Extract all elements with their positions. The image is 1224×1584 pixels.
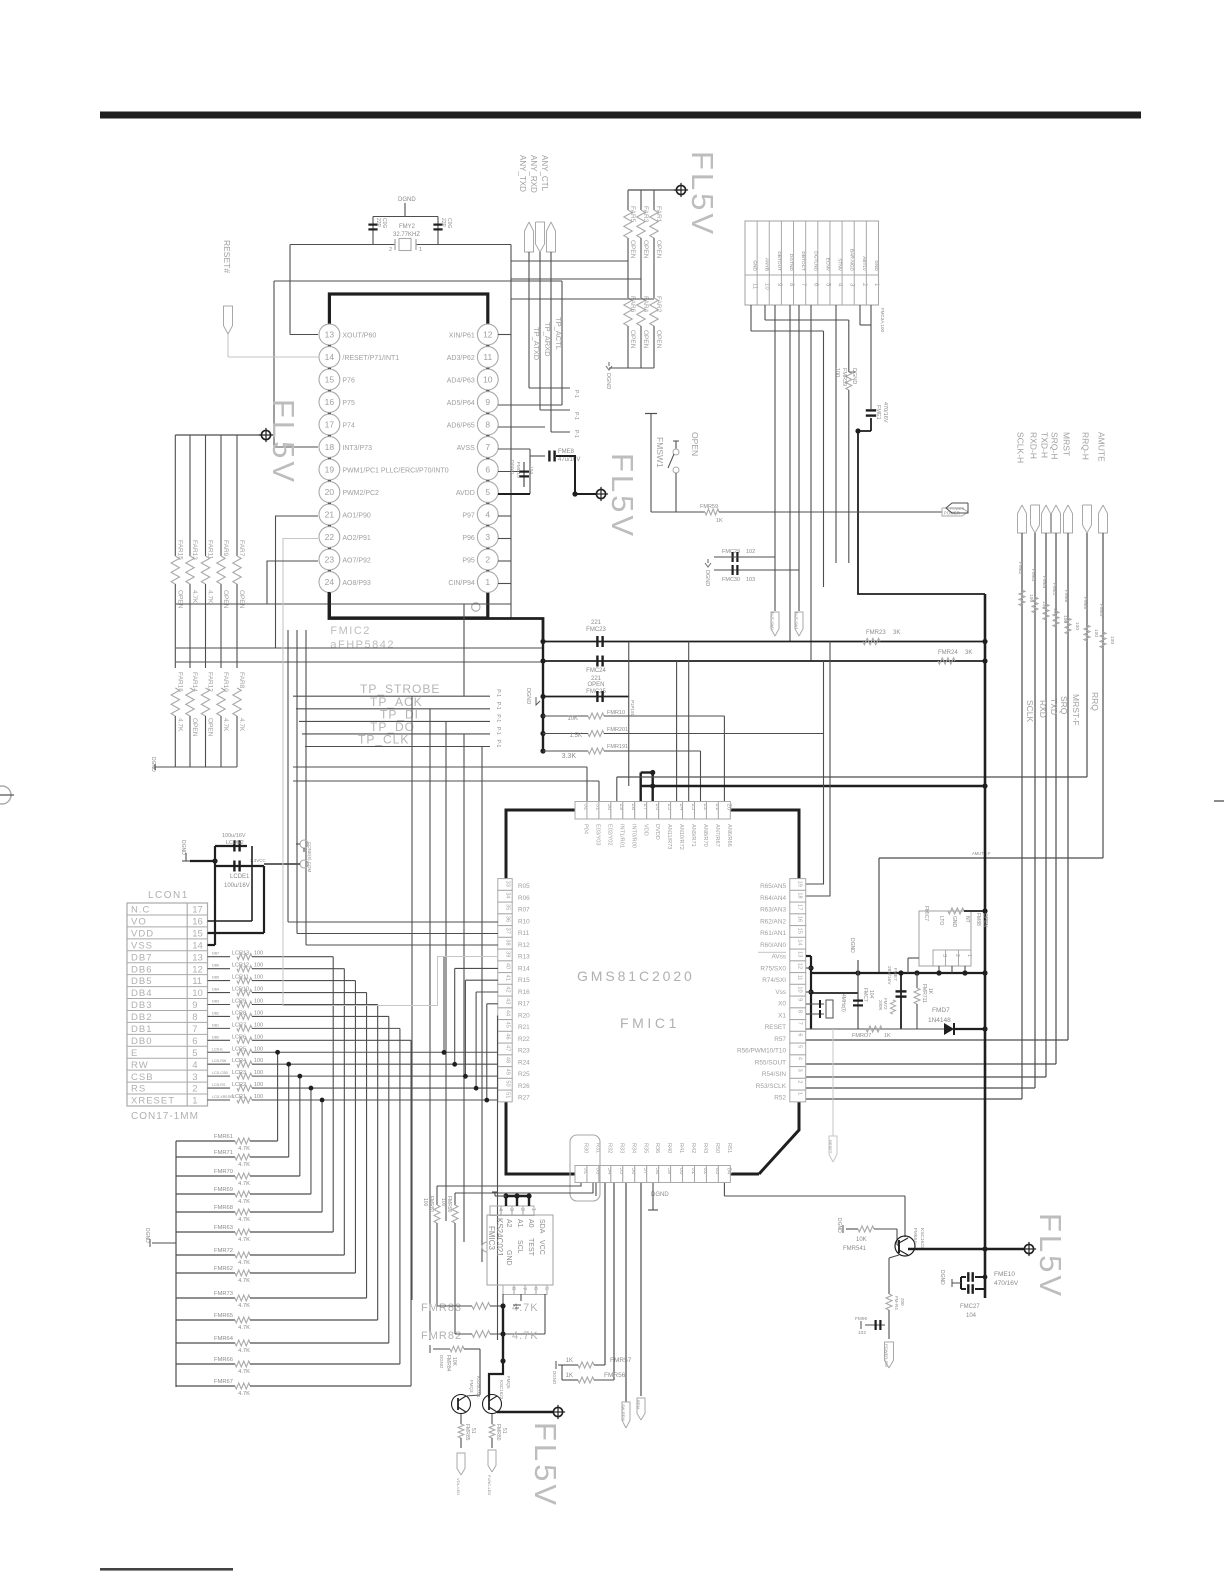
svg-text:FMC27: FMC27 <box>960 1304 980 1310</box>
svg-text:DB3: DB3 <box>131 1000 152 1011</box>
svg-text:FMR191: FMR191 <box>607 744 628 750</box>
svg-text:DGND: DGND <box>144 1228 150 1243</box>
crystal FMY2 32.77KHZ <box>373 224 438 253</box>
resistor FMR201 1.5K <box>543 727 824 739</box>
svg-text:FMC30: FMC30 <box>722 577 740 583</box>
svg-text:23: 23 <box>325 555 335 565</box>
svg-text:4.7K: 4.7K <box>238 1181 250 1187</box>
FMIC1 pin 13 AVss <box>758 949 806 961</box>
svg-text:A1: A1 <box>516 1219 523 1228</box>
svg-text:XRESET: XRESET <box>131 1096 175 1107</box>
svg-text:102: 102 <box>746 549 755 555</box>
svg-text:3: 3 <box>508 1208 514 1211</box>
svg-text:4.7K: 4.7K <box>238 1162 250 1168</box>
svg-text:VOL-LED: VOL-LED <box>456 1478 461 1495</box>
svg-text:P-1: P-1 <box>495 727 501 735</box>
svg-text:FM64: FM64 <box>1041 576 1047 589</box>
svg-text:24: 24 <box>325 577 335 587</box>
power tap FAR13 network <box>259 428 273 442</box>
svg-text:R14: R14 <box>518 965 530 972</box>
svg-text:20: 20 <box>726 804 733 811</box>
svg-text:FMR56: FMR56 <box>604 1372 626 1379</box>
svg-text:100: 100 <box>254 1046 263 1052</box>
svg-text:RW: RW <box>131 1060 149 1071</box>
svg-text:FMR61: FMR61 <box>214 1134 233 1140</box>
flag SCLK-H <box>1016 432 1027 533</box>
svg-text:200: 200 <box>900 1298 905 1306</box>
flag RESET-OUT down <box>828 1029 837 1162</box>
svg-text:1K: 1K <box>716 518 723 524</box>
wire cap bus vertical <box>540 639 545 754</box>
svg-text:P-1: P-1 <box>573 390 579 398</box>
svg-text:4.7K: 4.7K <box>191 590 198 604</box>
ground DGND FMC29 <box>704 559 711 586</box>
label AMUTE-F small <box>972 851 991 856</box>
svg-text:103: 103 <box>746 577 755 583</box>
FMIC1 pin 14 R60/AN0 <box>760 937 806 949</box>
svg-text:DB1: DB1 <box>131 1024 152 1035</box>
FMIC1 pin 51 R27 <box>498 1090 530 1102</box>
svg-text:470/16V: 470/16V <box>882 402 888 423</box>
resistor FMR541 10K <box>836 1218 899 1252</box>
svg-text:7: 7 <box>192 1024 197 1035</box>
svg-text:R57: R57 <box>774 1036 786 1043</box>
FMIC2 pin 17 P74 <box>319 414 355 435</box>
ground DGND FAR13 network <box>150 757 156 772</box>
svg-text:5: 5 <box>485 487 490 497</box>
FMIC1 pin 52 R30 <box>575 1143 589 1183</box>
svg-text:ANY_TXD: ANY_TXD <box>518 155 527 192</box>
wires P97-CIN stubs <box>498 516 511 584</box>
svg-text:1: 1 <box>192 1096 197 1107</box>
svg-text:TEST: TEST <box>527 1238 534 1257</box>
net stub P1 pins <box>573 390 579 438</box>
wires signal verticals <box>617 533 1103 1099</box>
bottom footer rule <box>100 1568 233 1571</box>
svg-text:FM62: FM62 <box>1017 562 1023 575</box>
svg-text:49: 49 <box>505 1069 511 1075</box>
svg-text:19: 19 <box>797 881 803 887</box>
svg-text:3K: 3K <box>893 630 900 636</box>
svg-text:100: 100 <box>254 998 263 1004</box>
svg-text:FMR80: FMR80 <box>495 1424 501 1441</box>
svg-text:AMUTE-F: AMUTE-F <box>972 851 991 856</box>
svg-text:FM-R4: FM-R4 <box>894 1296 899 1310</box>
svg-text:4.7K: 4.7K <box>238 1325 250 1331</box>
svg-text:R30: R30 <box>583 1143 589 1153</box>
flag AMUTE <box>1097 432 1108 533</box>
svg-text:3: 3 <box>941 954 947 957</box>
svg-text:R10: R10 <box>518 918 530 925</box>
svg-text:2: 2 <box>954 954 960 957</box>
capacitor FME7 47u <box>878 966 907 1029</box>
svg-text:1K: 1K <box>927 988 933 995</box>
svg-text:3.3K: 3.3K <box>562 753 577 760</box>
svg-text:FMSW1: FMSW1 <box>655 437 665 468</box>
svg-text:15: 15 <box>325 375 335 385</box>
svg-text:P-1: P-1 <box>495 714 501 722</box>
svg-text:R35: R35 <box>642 1143 648 1153</box>
svg-text:100: 100 <box>254 1058 263 1064</box>
svg-text:XOUT/P60: XOUT/P60 <box>342 333 376 340</box>
svg-text:FMC24: FMC24 <box>586 668 606 674</box>
svg-text:SCL: SCL <box>516 1240 523 1254</box>
svg-text:R20: R20 <box>518 1012 530 1019</box>
FMIC1 pin 39 R13 <box>498 949 530 961</box>
resistor FMR39 100 <box>834 368 852 563</box>
svg-text:4.7K: 4.7K <box>176 718 183 732</box>
svg-text:FL5V: FL5V <box>1033 1213 1068 1299</box>
wires connector drops <box>751 305 871 661</box>
svg-text:44: 44 <box>505 1010 511 1016</box>
svg-text:2: 2 <box>519 1208 525 1211</box>
svg-text:4.7K: 4.7K <box>238 1260 250 1266</box>
FMIC1 pin 40 R14 <box>498 961 530 973</box>
svg-text:4: 4 <box>797 1057 803 1060</box>
power tap FL5V FAR network <box>674 183 688 197</box>
svg-text:100: 100 <box>834 368 840 377</box>
svg-text:43: 43 <box>505 998 511 1004</box>
svg-text:6: 6 <box>797 1033 803 1036</box>
capacitor FMC91 102 <box>855 1316 885 1336</box>
svg-text:R75/SX0: R75/SX0 <box>760 965 786 972</box>
svg-text:R27: R27 <box>518 1095 530 1102</box>
svg-text:AN9/R71: AN9/R71 <box>690 824 696 847</box>
svg-text:R25: R25 <box>518 1071 530 1078</box>
svg-text:FME10: FME10 <box>994 1271 1015 1278</box>
svg-text:FMC3A,100: FMC3A,100 <box>880 308 885 333</box>
FMIC1 pin 23 AN9/R71 <box>683 802 697 847</box>
svg-text:13: 13 <box>797 951 803 957</box>
svg-text:FMR84: FMR84 <box>445 1355 451 1372</box>
svg-text:R55/SOUT: R55/SOUT <box>755 1059 786 1066</box>
svg-text:GMS81C2020: GMS81C2020 <box>577 968 695 984</box>
ground DGND FMR56 <box>552 1361 562 1385</box>
svg-text:FMR62: FMR62 <box>214 1266 233 1272</box>
svg-text:FMIC7: FMIC7 <box>923 906 929 921</box>
svg-text:C0G: C0G <box>381 218 387 228</box>
svg-text:FMIC2: FMIC2 <box>330 625 371 637</box>
svg-text:DB6: DB6 <box>131 964 152 975</box>
svg-text:TP_ARXD: TP_ARXD <box>543 322 552 357</box>
svg-text:R22: R22 <box>518 1036 530 1043</box>
power tap FL5V AVDD <box>594 487 608 501</box>
svg-text:18: 18 <box>797 892 803 898</box>
FMIC1 pin 37 R11 <box>498 926 530 938</box>
svg-text:48: 48 <box>505 1057 511 1063</box>
svg-text:N.C: N.C <box>131 905 150 916</box>
svg-text:FL5V: FL5V <box>685 151 720 237</box>
svg-text:R06: R06 <box>518 895 530 902</box>
svg-text:DB4: DB4 <box>131 988 152 999</box>
flag ANY_RXD <box>529 155 545 252</box>
FMIC1 pin 25 AN11/R73 <box>659 802 673 850</box>
IC FMIC1 GMS81C2020 outline <box>506 810 799 1174</box>
svg-text:RESET: RESET <box>765 1024 786 1031</box>
capacitor LCDE2 100u/16V <box>215 833 247 945</box>
net label TP_DI <box>299 707 501 722</box>
svg-text:R16: R16 <box>518 989 530 996</box>
svg-text:FMR63: FMR63 <box>214 1225 233 1231</box>
FMIC1 pin 17 R63/AN3 <box>760 902 806 914</box>
FMIC1 pin 15 R61/AN1 <box>760 926 806 938</box>
svg-text:470/16V: 470/16V <box>994 1280 1019 1287</box>
svg-text:104: 104 <box>528 466 534 474</box>
svg-text:FMR69: FMR69 <box>214 1187 233 1193</box>
wire FMIC2 left bus verticals <box>288 630 306 945</box>
connector FCON1 top right <box>745 221 879 305</box>
svg-text:XIN/P61: XIN/P61 <box>449 333 475 340</box>
svg-text:R62/AN2: R62/AN2 <box>760 918 786 925</box>
svg-text:AN6/R66: AN6/R66 <box>726 824 732 847</box>
FMIC1 pin 57 R35 <box>635 1143 649 1183</box>
svg-text:R56/PWM10/T10: R56/PWM10/T10 <box>737 1048 786 1055</box>
svg-text:AD4/P63: AD4/P63 <box>447 378 475 385</box>
capacitor FMC7 104 <box>849 938 874 1029</box>
svg-text:51: 51 <box>501 1428 507 1434</box>
svg-text:4.7K: 4.7K <box>238 718 245 732</box>
svg-text:64: 64 <box>726 1168 733 1175</box>
svg-text:OPEN: OPEN <box>222 590 229 609</box>
svg-text:10: 10 <box>483 375 493 385</box>
svg-text:2: 2 <box>192 1084 197 1095</box>
net stub P1 b <box>0 0 1 1</box>
svg-text:OPEN: OPEN <box>982 913 988 928</box>
wire FAR mid horizontals <box>176 604 543 662</box>
wire collector from above <box>724 1183 905 1237</box>
net label TP_ARXD <box>543 322 552 357</box>
wire XOUT loop left <box>290 245 373 335</box>
svg-text:RESET: RESET <box>828 1140 833 1154</box>
svg-text:R52: R52 <box>774 1095 786 1102</box>
FMIC1 pin 42 R16 <box>498 984 530 996</box>
svg-text:AD6/P65: AD6/P65 <box>447 423 475 430</box>
wire pin19 feed <box>806 661 824 884</box>
resistor FMR83 4.7K <box>421 1294 539 1314</box>
svg-text:100: 100 <box>254 987 263 993</box>
svg-text:/RESET/P71/INT1: /RESET/P71/INT1 <box>342 355 399 362</box>
svg-text:DGND: DGND <box>851 368 857 384</box>
svg-text:1: 1 <box>419 247 422 253</box>
svg-text:SW-REM: SW-REM <box>621 1404 626 1421</box>
svg-text:4.7K: 4.7K <box>238 1146 250 1152</box>
svg-text:R32: R32 <box>606 1143 612 1153</box>
svg-text:DB5: DB5 <box>212 976 219 980</box>
svg-text:12: 12 <box>192 964 203 975</box>
FMIC1 pin 21 AN7/R67 <box>706 802 720 847</box>
svg-text:FMR72: FMR72 <box>214 1248 233 1254</box>
svg-text:FAR1: FAR1 <box>655 206 662 223</box>
svg-text:P-1: P-1 <box>573 430 579 438</box>
svg-text:FMR83: FMR83 <box>421 1302 462 1314</box>
flag RRQ-H <box>1081 432 1092 533</box>
svg-text:DGND: DGND <box>651 1192 669 1198</box>
svg-text:4.7K: 4.7K <box>222 718 229 732</box>
svg-text:FMR57: FMR57 <box>610 1357 632 1364</box>
svg-text:DGND: DGND <box>939 1270 945 1285</box>
svg-text:A2: A2 <box>505 1219 512 1228</box>
power label FL5V near FMSW1 <box>605 453 640 539</box>
top title rule <box>100 112 1141 119</box>
svg-text:R63/AN3: R63/AN3 <box>760 907 786 914</box>
svg-text:TP_ACTL: TP_ACTL <box>554 317 563 350</box>
IC FMIC2 aFHP5842 body <box>329 294 487 651</box>
flag ANY_CTL <box>540 155 556 252</box>
svg-text:OPEN: OPEN <box>238 590 245 609</box>
svg-text:AN7/R67: AN7/R67 <box>714 824 720 847</box>
svg-text:PWM1/PC1 PLLC/ERCI/P70/INT0: PWM1/PC1 PLLC/ERCI/P70/INT0 <box>342 468 448 475</box>
flag TXD-H <box>1040 432 1051 533</box>
svg-text:RRQ: RRQ <box>1090 692 1100 711</box>
resistor FMR57 1K <box>562 1357 632 1368</box>
svg-text:LCR3: LCR3 <box>232 1070 246 1076</box>
svg-text:6: 6 <box>485 465 490 475</box>
capacitor FMC23 221 <box>543 620 988 647</box>
FMIC1 pin 12 R75/SX0 <box>760 961 805 973</box>
svg-text:FM88: FM88 <box>975 913 981 926</box>
wire pin24 thick down <box>329 592 543 642</box>
svg-text:OPEN: OPEN <box>629 240 636 259</box>
svg-text:VCC: VCC <box>538 1240 545 1255</box>
svg-text:100: 100 <box>254 1010 263 1016</box>
resistors LCR1-LCR13 100 <box>208 951 499 1386</box>
FMIC1 pin 64 R51 <box>718 1143 732 1183</box>
capacitor LCDE1 100u/16V <box>215 846 267 933</box>
svg-text:LCON1: LCON1 <box>148 890 189 901</box>
svg-text:4.7K: 4.7K <box>238 1237 250 1243</box>
svg-text:OPEN: OPEN <box>655 240 662 259</box>
svg-text:OPEN: OPEN <box>690 432 700 456</box>
svg-text:LCD-CSB: LCD-CSB <box>212 1071 228 1075</box>
svg-text:E: E <box>131 1048 138 1059</box>
svg-text:P95: P95 <box>462 558 475 565</box>
svg-text:39: 39 <box>505 951 511 957</box>
wire X1 horizontal <box>811 992 858 994</box>
FMIC1 pin 5 R56/PWM10/T10 <box>737 1043 806 1055</box>
svg-text:P-1: P-1 <box>495 702 501 710</box>
svg-text:P1P191: P1P191 <box>630 700 635 717</box>
svg-text:KSC1623: KSC1623 <box>499 1380 504 1400</box>
resistor network FAR1-FAR6 <box>624 190 681 368</box>
svg-text:DGND: DGND <box>525 688 531 704</box>
svg-text:LCDE1: LCDE1 <box>230 874 250 880</box>
svg-text:OPEN: OPEN <box>191 718 198 737</box>
FMIC2 pin 1 CIN/P94 <box>448 572 498 593</box>
svg-text:R34: R34 <box>630 1143 636 1153</box>
svg-text:FMR23: FMR23 <box>866 630 886 636</box>
svg-text:5: 5 <box>543 1287 549 1290</box>
svg-text:DB7: DB7 <box>212 952 219 956</box>
FMIC2 pin 8 AD6/P65 <box>447 414 498 435</box>
flag BUT-SW1 below connector <box>794 612 803 636</box>
svg-text:R33: R33 <box>618 1143 624 1153</box>
FMIC1 pin 62 R43 <box>695 1143 709 1183</box>
transistor Q2 KSC1623 right <box>483 1361 512 1414</box>
svg-text:RXD-H: RXD-H <box>1029 432 1039 459</box>
svg-text:CSB: CSB <box>131 1072 154 1083</box>
svg-text:R60/AN0: R60/AN0 <box>760 942 786 949</box>
svg-text:CONE(6),COM: CONE(6),COM <box>307 842 312 873</box>
FMIC2 pin 18 INT3/P73 <box>319 437 372 458</box>
svg-text:OPEN: OPEN <box>207 718 214 737</box>
svg-text:16: 16 <box>797 916 803 922</box>
svg-text:DGND: DGND <box>439 1355 444 1369</box>
svg-text:221: 221 <box>591 620 602 626</box>
FMIC2 pin 5 AVDD <box>456 482 498 503</box>
FMIC1 pin 47 R23 <box>498 1043 530 1055</box>
resistor FMR82 4.7K <box>421 1294 545 1342</box>
svg-text:FME1: FME1 <box>875 405 881 420</box>
FMIC1 pin 44 R20 <box>498 1008 530 1020</box>
svg-text:LTO: LTO <box>938 916 944 925</box>
svg-text:4.7K: 4.7K <box>238 1278 250 1284</box>
svg-text:FM66: FM66 <box>1063 590 1069 603</box>
connector CONE taps <box>264 840 312 873</box>
svg-text:R12: R12 <box>518 942 530 949</box>
svg-text:8: 8 <box>797 1010 803 1013</box>
svg-text:R42: R42 <box>690 1143 696 1153</box>
svg-text:13: 13 <box>192 952 203 963</box>
flag BUT-SW0 below connector <box>770 612 779 636</box>
ground DGND ladder <box>144 1228 176 1247</box>
FMIC1 pin 6 R57 <box>774 1031 805 1043</box>
net label TP_DO <box>302 720 501 735</box>
wire thick jog into pin 26 <box>641 770 988 802</box>
FMIC1 pin 32 P04 <box>575 802 589 834</box>
svg-text:1K: 1K <box>884 1033 891 1039</box>
resistor FMR191 3.3K <box>543 744 701 760</box>
flag RXD-H <box>1029 432 1040 533</box>
flag MRST <box>1062 432 1073 533</box>
FMIC1 pin 49 R25 <box>498 1067 530 1079</box>
FMIC1 pin 36 R10 <box>498 914 530 926</box>
svg-text:OPEN: OPEN <box>642 330 649 349</box>
svg-text:FM61: FM61 <box>1051 583 1057 596</box>
svg-text:200K: 200K <box>878 1000 883 1011</box>
wire ANY_RXD down <box>540 252 570 410</box>
net label TP_ACTL <box>554 317 563 350</box>
wire pin18 feed <box>806 642 830 897</box>
svg-text:AVSS: AVSS <box>457 445 475 452</box>
svg-text:4.7K: 4.7K <box>512 1330 539 1342</box>
svg-text:100: 100 <box>254 951 263 957</box>
svg-text:FMY2: FMY2 <box>399 224 416 230</box>
svg-text:2: 2 <box>485 555 490 565</box>
svg-text:MRST-F: MRST-F <box>1071 694 1081 726</box>
svg-text:LCR7: LCR7 <box>232 1022 246 1028</box>
svg-text:9: 9 <box>485 397 490 407</box>
svg-text:OPEN: OPEN <box>587 682 604 688</box>
FMIC2 pin 21 AO1/P90 <box>319 504 371 525</box>
FMIC1 pin 34 R06 <box>498 890 530 902</box>
svg-text:MRST: MRST <box>1062 432 1072 456</box>
FMIC1 pin 28 INT0/R00 <box>623 802 637 848</box>
svg-text:R36: R36 <box>654 1143 660 1153</box>
svg-text:GND: GND <box>505 1250 512 1266</box>
svg-text:P04: P04 <box>583 824 589 834</box>
connector LCON1 table <box>127 890 208 1122</box>
FMIC2 pin 23 AO7/P92 <box>319 549 371 570</box>
svg-text:X1: X1 <box>778 1012 786 1019</box>
svg-text:P74: P74 <box>342 423 355 430</box>
svg-text:100: 100 <box>254 1070 263 1076</box>
FMIC2 pin 15 P76 <box>319 369 355 390</box>
FMIC2 pin 20 PWM2/PC2 <box>319 482 379 503</box>
power label FL5V bottom right <box>1033 1213 1068 1299</box>
svg-text:P-1: P-1 <box>495 740 501 748</box>
svg-text:TP_CLK: TP_CLK <box>358 733 409 747</box>
left registration hole <box>0 786 14 804</box>
